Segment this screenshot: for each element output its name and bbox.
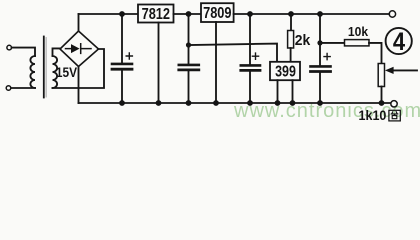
junction dot 12V branch node bbox=[186, 42, 191, 47]
junction dot top rail C2 bbox=[186, 11, 192, 17]
regulator U2 7809 box bbox=[201, 3, 234, 22]
wire rail to capacitor C2 bbox=[188, 14, 190, 65]
regulator U1 7812 box bbox=[138, 5, 174, 23]
potentiometer wiper arrowhead bbox=[385, 67, 394, 74]
svg-text:15V: 15V bbox=[56, 64, 77, 80]
output terminal bottom right bbox=[391, 101, 397, 107]
wire secondary bottom to bridge right vertex bbox=[53, 49, 105, 88]
wire C1 to ground rail bbox=[121, 69, 123, 103]
wire rail to resistor R1 2k bbox=[290, 14, 292, 31]
resistor R2 10k body bbox=[345, 40, 370, 46]
potentiometer wiper line bbox=[393, 69, 417, 71]
wire J2 to transformer primary bottom bbox=[11, 87, 35, 89]
top rail segment 7809 to output terminal bbox=[234, 13, 390, 15]
junction dot 9V tap to 10k bbox=[317, 40, 322, 45]
junction dot ground C4 bbox=[317, 100, 323, 106]
transformer T1 secondary winding bbox=[53, 56, 58, 88]
junction dot ground potentiometer bbox=[379, 100, 385, 106]
wire potentiometer bottom to ground rail bbox=[381, 87, 383, 104]
wire R2 to potentiometer top bbox=[369, 43, 382, 64]
junction dot top rail R1 bbox=[288, 11, 294, 17]
C4 polarity plus bbox=[324, 54, 330, 60]
C3 polarity plus bbox=[252, 53, 258, 59]
junction dot top rail C1 bbox=[119, 11, 125, 17]
wire C3 to ground rail bbox=[249, 70, 251, 103]
svg-text:399: 399 bbox=[275, 63, 296, 81]
svg-text:1k10: 1k10 bbox=[359, 108, 387, 124]
terminal J2 (AC input bottom) bbox=[6, 86, 11, 91]
junction dot ground 7812 bbox=[156, 100, 162, 106]
resistor R1 2k body bbox=[288, 31, 294, 49]
top rail segment 7812 to 7809 bbox=[174, 13, 202, 15]
LM399 bottom pin 2 bbox=[292, 80, 294, 103]
potentiometer RP body bbox=[378, 64, 384, 87]
LM399 bottom pin 1 bbox=[277, 80, 279, 103]
wire bridge top vertex to +rail bbox=[78, 14, 80, 31]
junction dot top rail C3 bbox=[247, 11, 253, 17]
terminal J1 (AC input top) bbox=[7, 45, 12, 50]
capacitor C2 plates bbox=[179, 64, 199, 67]
output terminal top right bbox=[389, 11, 395, 17]
junction dot top rail C4 branch bbox=[317, 11, 323, 17]
junction dot ground 7809 bbox=[213, 100, 219, 106]
capacitor C1 plates bbox=[112, 63, 132, 66]
7812 ground pin wire bbox=[158, 23, 160, 104]
junction dot ground 399 pin1 bbox=[275, 100, 281, 106]
bridge diode symbol bbox=[66, 44, 92, 54]
wire R1 to LM399 zener pin bbox=[290, 48, 292, 62]
wire rail to capacitor C3 bbox=[249, 14, 251, 65]
ground rail bbox=[79, 102, 391, 104]
wire J1 to transformer primary top bbox=[12, 48, 35, 56]
7809 ground pin wire bbox=[215, 22, 217, 103]
wire tap to resistor R2 10k bbox=[320, 42, 345, 44]
capacitor C4 plates bbox=[311, 65, 331, 68]
wire secondary top to bridge left vertex bbox=[53, 48, 61, 56]
top rail segment to 7812 bbox=[79, 13, 139, 15]
svg-text:7809: 7809 bbox=[203, 5, 231, 23]
capacitor C3 plates bbox=[241, 64, 260, 67]
svg-text:7812: 7812 bbox=[142, 6, 170, 24]
svg-text:10k: 10k bbox=[348, 24, 368, 38]
wire C4 to ground rail bbox=[319, 72, 321, 104]
wire C2 to ground rail bbox=[188, 70, 190, 103]
svg-text:4: 4 bbox=[393, 28, 405, 56]
wire rail to capacitor C1 bbox=[121, 14, 123, 64]
junction dot ground C3 bbox=[247, 100, 253, 106]
reference U3 399 box bbox=[270, 62, 300, 80]
junction dot ground C2 bbox=[186, 100, 192, 106]
wire 12V node to LM399 heater pin bbox=[189, 44, 278, 62]
junction dot ground C1 bbox=[119, 100, 125, 106]
bridge rectifier D1 diamond bbox=[60, 31, 99, 67]
junction dot ground 399 pin2 bbox=[290, 100, 296, 106]
transformer T1 core bbox=[43, 37, 45, 98]
wire bridge bottom vertex to ground rail bbox=[78, 67, 80, 104]
bridge diode triangle bbox=[71, 44, 80, 53]
wire rail down to C4 and 10k tap bbox=[319, 14, 321, 66]
svg-text:2k: 2k bbox=[295, 33, 311, 50]
label CJK quan (turns) hand-drawn bbox=[389, 110, 400, 121]
circled figure number 4 bbox=[386, 28, 412, 54]
C1 polarity plus bbox=[126, 53, 132, 59]
transformer T1 primary winding bbox=[30, 56, 35, 88]
